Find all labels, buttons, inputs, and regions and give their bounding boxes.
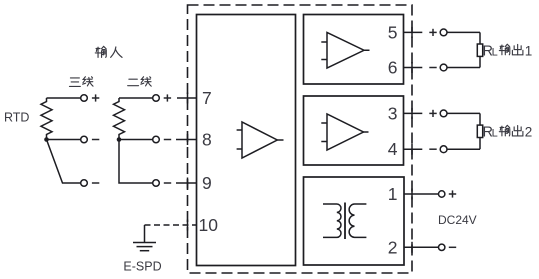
dashed enclosure border	[188, 5, 413, 273]
svg-text:2: 2	[525, 124, 533, 139]
svg-text:E-SPD: E-SPD	[123, 260, 161, 274]
plus sign pin1	[449, 190, 456, 197]
svg-text:L: L	[492, 127, 498, 139]
transformer box T1	[304, 177, 405, 265]
svg-text:1: 1	[388, 184, 398, 204]
wire 2wire mid	[119, 139, 153, 141]
terminal circle pin4 -	[440, 146, 447, 153]
transformer T1 symbol	[323, 203, 366, 240]
wire pin10 dashed to E-SPD	[145, 220, 197, 243]
node 3wire junction	[44, 137, 49, 142]
minus sign pin4	[429, 148, 436, 150]
minus sign 2wire bottom	[164, 182, 171, 184]
wire pin5	[404, 27, 481, 38]
terminal circle 2wire mid -	[153, 136, 160, 143]
wire pin3	[404, 108, 481, 119]
op-amp box U3 (middle right)	[304, 96, 404, 165]
minus sign 3wire bottom	[92, 182, 99, 184]
terminal circle 3wire bottom -	[81, 180, 88, 187]
resistor RTD 3-wire	[41, 98, 81, 140]
label RL输出2	[483, 124, 533, 140]
load resistor RL2	[477, 113, 482, 149]
op-amp U2	[321, 33, 369, 69]
wire pin1	[404, 189, 439, 200]
svg-text:3: 3	[388, 103, 398, 123]
plus sign pin5	[429, 29, 436, 36]
wire pin8	[176, 134, 197, 145]
svg-text:RTD: RTD	[4, 111, 29, 125]
plus sign 3wire	[92, 94, 99, 101]
label 输入	[111, 47, 122, 57]
node 2wire junction	[117, 137, 122, 142]
minus sign 3wire mid	[92, 139, 99, 141]
minus sign 2wire mid	[164, 139, 171, 141]
plus sign 2wire	[164, 94, 171, 101]
load resistor RL1	[477, 32, 482, 67]
wire 2wire down	[119, 140, 153, 184]
op-amp box U2 (top right)	[304, 15, 404, 85]
terminal circle 2wire +	[153, 95, 160, 102]
wire pin6	[404, 62, 481, 73]
terminal circle pin2	[439, 244, 445, 250]
resistor RTD 2-wire	[114, 98, 153, 140]
svg-text:4: 4	[388, 139, 398, 159]
plus sign pin3	[429, 110, 436, 117]
svg-text:L: L	[492, 46, 498, 58]
ground E-SPD	[133, 243, 156, 251]
terminal circle 2wire bottom -	[153, 180, 160, 187]
svg-text:10: 10	[199, 215, 219, 235]
terminal circle 3wire +	[81, 95, 88, 102]
svg-text:6: 6	[388, 58, 398, 78]
label 二线	[128, 79, 139, 85]
minus sign pin2	[449, 246, 456, 248]
wire pin2	[404, 242, 439, 253]
svg-text:8: 8	[202, 130, 212, 150]
terminal circle pin3 +	[440, 110, 447, 117]
label RL输出1	[483, 43, 533, 59]
svg-text:5: 5	[388, 22, 398, 42]
wire 3wire diagonal	[47, 140, 81, 184]
wire pin4	[404, 144, 481, 155]
op-amp U3	[321, 114, 368, 150]
terminal circle 3wire mid -	[81, 136, 88, 143]
svg-text:1: 1	[525, 43, 533, 58]
wire pin9	[176, 178, 197, 189]
svg-text:DC24V: DC24V	[438, 213, 477, 227]
svg-text:9: 9	[202, 173, 212, 193]
main isolator box	[197, 15, 296, 266]
terminal circle pin1	[439, 191, 445, 197]
label 三线	[69, 78, 80, 86]
wire 3wire mid	[47, 139, 81, 141]
svg-text:2: 2	[388, 237, 398, 257]
op-amp U1 (main amplifier)	[237, 122, 284, 158]
svg-text:7: 7	[202, 88, 212, 108]
wire pin7	[177, 93, 197, 104]
terminal circle pin5 +	[440, 29, 447, 36]
minus sign pin6	[429, 67, 436, 69]
terminal circle pin6 -	[440, 64, 447, 71]
